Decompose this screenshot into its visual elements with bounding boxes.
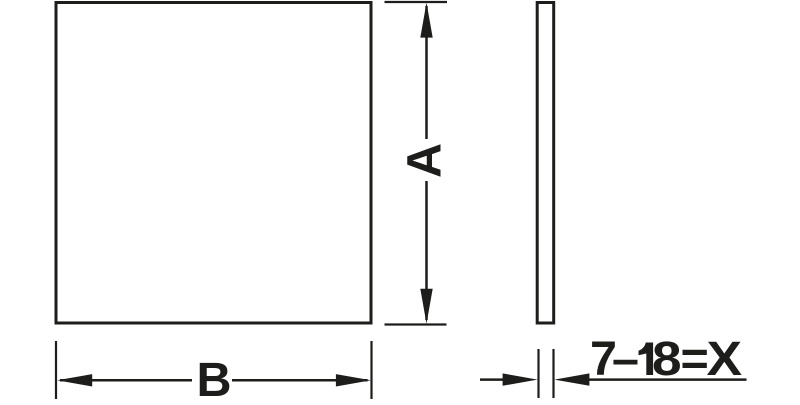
dim A arrowhead down [420, 289, 432, 324]
dim A line lower segment [425, 181, 428, 320]
dim X left extension line [537, 349, 539, 398]
dim X left leader line [480, 378, 510, 381]
svg-text:8=X: 8=X [652, 332, 742, 386]
dim B arrowhead left [57, 374, 92, 386]
dim B arrowhead right [336, 374, 371, 386]
dim B line left segment [60, 379, 192, 382]
dim B right extension line [370, 341, 372, 399]
panel side view (thin rectangle) [537, 3, 554, 324]
dim A top extension line [385, 1, 448, 3]
dim X right leader line [585, 378, 747, 381]
dim A line upper segment [425, 6, 428, 139]
label digit 1 (custom helvetica-style glyph) [639, 343, 654, 376]
svg-text:A: A [398, 143, 452, 178]
dim B left extension line [55, 341, 57, 399]
dim A arrowhead up [420, 3, 432, 38]
dim A bottom extension line [385, 323, 447, 325]
svg-text:B: B [196, 353, 231, 400]
svg-text:7–: 7– [590, 332, 639, 386]
panel front view (square) [56, 3, 371, 324]
dim B line right segment [232, 379, 368, 382]
dim X arrowhead pointing left [554, 373, 589, 385]
dim X arrowhead pointing right [503, 373, 538, 385]
dim X right extension line [552, 349, 554, 398]
